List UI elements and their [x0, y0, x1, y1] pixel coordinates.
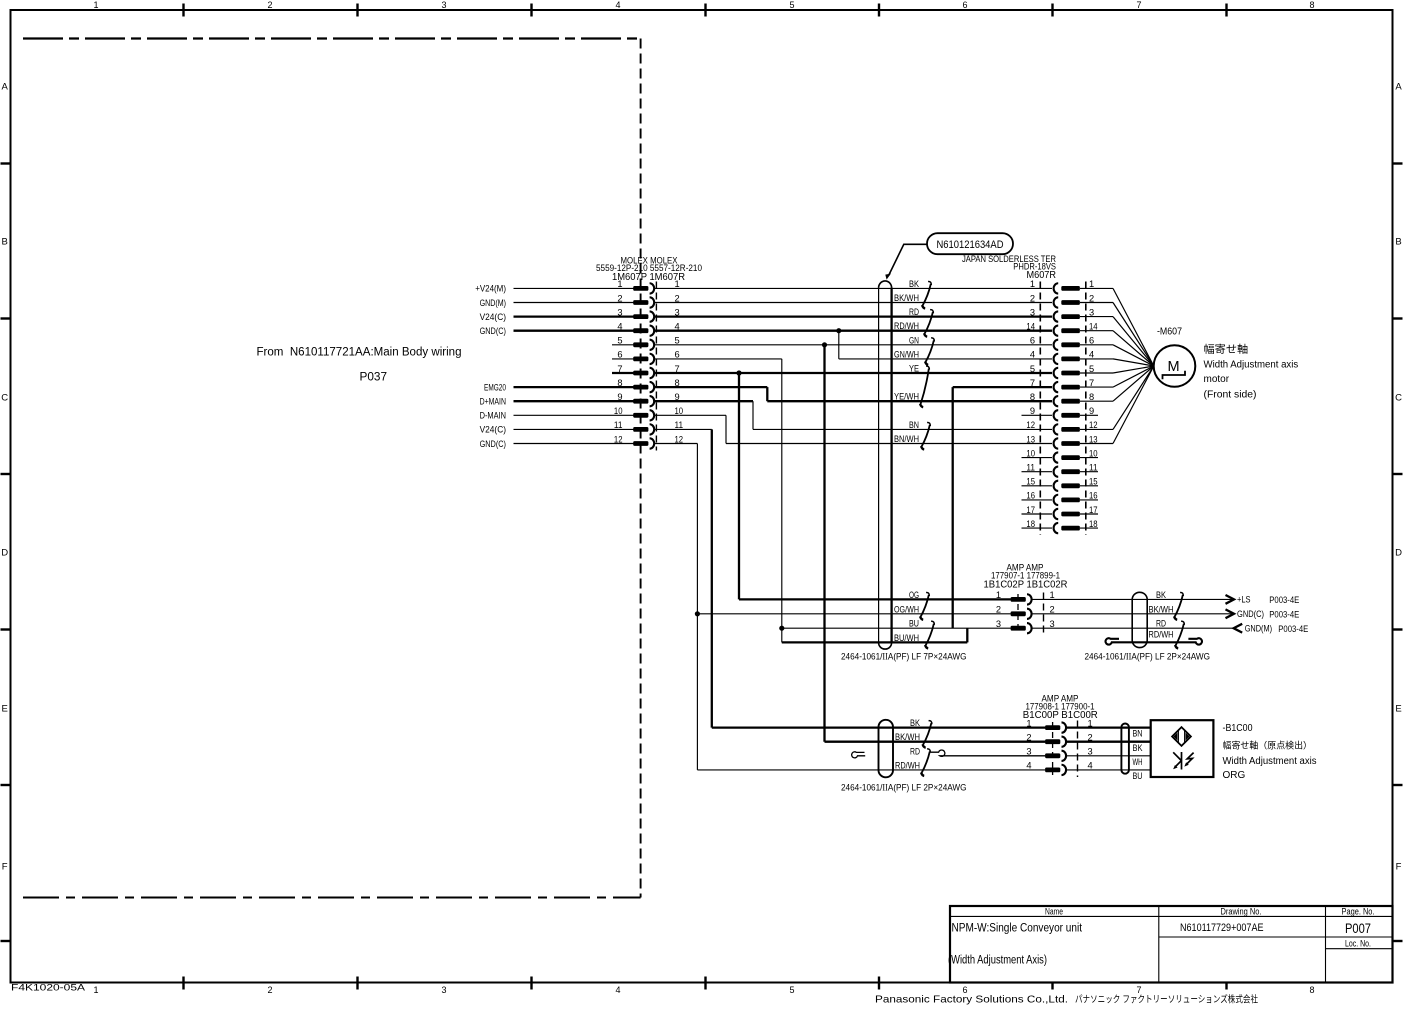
connector M607R position 4 (pin 14): [1061, 328, 1080, 333]
wire BU/WH parallel: [782, 641, 968, 643]
svg-text:RD/WH: RD/WH: [895, 760, 920, 771]
svg-text:1: 1: [675, 279, 680, 289]
svg-text:N610121634AD: N610121634AD: [937, 239, 1004, 251]
connector M607R position 6 (pin 4): [1061, 357, 1080, 362]
connector M607R position 7 (pin 5): [1061, 371, 1080, 376]
svg-text:D-MAIN: D-MAIN: [480, 411, 507, 422]
wire GN 1M607 pin5 to M607R pin6: [654, 344, 1052, 346]
unused stub right: [1080, 513, 1098, 515]
svg-text:6: 6: [962, 0, 967, 10]
svg-text:10: 10: [614, 406, 623, 416]
svg-text:A: A: [1395, 81, 1402, 92]
title block: [950, 906, 1393, 983]
wire YE 1M607 pin7 to M607R pin5: [654, 372, 1052, 374]
svg-text:B: B: [1395, 236, 1401, 247]
svg-text:6: 6: [1030, 336, 1035, 346]
svg-text:D: D: [1395, 547, 1402, 558]
svg-text:P003-4E: P003-4E: [1278, 624, 1308, 635]
stub to motor: [1080, 316, 1113, 318]
wire left of 1M607 pin 6: [612, 358, 634, 360]
wire RD/WH to B1C00 pin4: [697, 769, 1045, 771]
svg-text:BU: BU: [1133, 771, 1143, 782]
connector 1M607 pin 2: [633, 300, 648, 305]
motor lead: [1113, 345, 1154, 366]
svg-text:F: F: [1396, 861, 1402, 872]
plug centre dashed line: [1052, 722, 1054, 775]
stub to motor: [1080, 330, 1113, 332]
unused stub right: [1080, 414, 1098, 416]
svg-text:10: 10: [1026, 448, 1035, 458]
motor lead: [1113, 366, 1154, 387]
stub to motor: [1080, 400, 1113, 402]
svg-text:BU: BU: [909, 619, 919, 630]
svg-text:2: 2: [675, 293, 680, 303]
stub left M607R pin 15: [1022, 485, 1053, 487]
connector 1M607 pin 9: [633, 399, 648, 404]
svg-text:6: 6: [617, 350, 622, 360]
svg-text:ORG: ORG: [1223, 770, 1246, 781]
svg-text:17: 17: [1089, 505, 1098, 515]
svg-text:3: 3: [617, 307, 622, 317]
connector 1B1C02 pin 2: [1011, 611, 1026, 616]
svg-text:4: 4: [615, 0, 620, 10]
svg-text:Width Adjustment axis: Width Adjustment axis: [1223, 756, 1317, 767]
motor lead: [1113, 359, 1154, 366]
twisted-pair mark: [920, 592, 929, 619]
motor lead: [1113, 366, 1154, 401]
svg-text:16: 16: [1026, 491, 1035, 501]
svg-text:9: 9: [1030, 406, 1035, 416]
twisted-pair mark: [1174, 592, 1183, 619]
stub left M607R pin 9: [1022, 414, 1053, 416]
svg-text:3: 3: [1026, 747, 1031, 757]
stub left M607R pin 18: [1022, 527, 1053, 529]
wire left of 1M607 pin 7: [612, 372, 634, 374]
wire left of 1M607 pin 1: [514, 287, 634, 289]
svg-text:14: 14: [1089, 322, 1098, 332]
stub to motor: [1080, 302, 1113, 304]
svg-text:15: 15: [1026, 477, 1035, 487]
stub to motor: [1080, 372, 1113, 374]
svg-text:8: 8: [1309, 985, 1314, 995]
wire EMG20 step down: [766, 387, 768, 401]
svg-text:P003-4E: P003-4E: [1269, 609, 1299, 620]
cable symbol 2P lower-right oval: [1121, 724, 1129, 774]
svg-text:4: 4: [1030, 350, 1035, 360]
svg-text:Width Adjustment axis: Width Adjustment axis: [1204, 359, 1299, 370]
svg-text:Name: Name: [1045, 907, 1063, 917]
unused stub right: [1080, 527, 1098, 529]
svg-text:13: 13: [1026, 434, 1035, 444]
connector 1M607 pin 12: [633, 441, 648, 446]
svg-text:1: 1: [93, 0, 98, 10]
svg-text:NPM-W:Single Conveyor unit: NPM-W:Single Conveyor unit: [952, 923, 1083, 935]
wire BK to B1C00 pin1: [712, 726, 1046, 728]
photo receiver symbol: [1173, 752, 1193, 770]
connector 1M607 pin 1: [633, 286, 648, 291]
wire drop 1M607 pin6 to BU/BU-WH: [781, 359, 783, 643]
svg-text:1: 1: [1089, 279, 1094, 289]
svg-text:GND(M): GND(M): [480, 298, 506, 309]
arrow in GND(M): [1234, 624, 1243, 633]
svg-text:2: 2: [996, 605, 1001, 615]
receptacle-side dashed line 1M607R: [655, 282, 657, 451]
stub to motor: [1080, 386, 1113, 388]
wire GN/WH to M607R pin4: [839, 358, 1052, 360]
svg-text:7: 7: [1089, 378, 1094, 388]
twisted-pair mark: [921, 422, 930, 449]
svg-text:12: 12: [675, 434, 684, 444]
svg-text:N610117729+007AE: N610117729+007AE: [1180, 922, 1264, 934]
wire GND(C) pin12 right of connector: [654, 443, 697, 445]
svg-text:11: 11: [614, 420, 623, 430]
svg-text:M: M: [1167, 359, 1179, 375]
svg-text:E: E: [1395, 703, 1401, 714]
branch GND(C) down: [838, 331, 840, 359]
svg-text:P037: P037: [360, 372, 388, 384]
svg-text:BN: BN: [909, 420, 919, 431]
twisted-pair mark: [923, 721, 932, 748]
twisted-pair mark: [922, 281, 931, 308]
svg-text:From N610117721AA:Main Body w: From N610117721AA:Main Body wiring: [257, 347, 462, 359]
cable symbol 2P lower-left oval: [879, 720, 894, 778]
svg-text:OG/WH: OG/WH: [894, 604, 919, 615]
wire BN/WH to M607R pin13: [726, 443, 1052, 445]
wire B1C00 pin3 to sensor: [1067, 755, 1151, 757]
connector M607R position 13 (pin 10): [1061, 455, 1080, 460]
connector M607R position 3 (pin 3): [1061, 314, 1080, 319]
svg-text:EMG20: EMG20: [484, 382, 506, 393]
cut RD/WH drain wire: [1106, 638, 1202, 644]
unused stub right: [1080, 499, 1098, 501]
svg-text:17: 17: [1026, 505, 1035, 515]
wire OG to 1B1C02 pin1: [739, 598, 1011, 600]
svg-text:7: 7: [1136, 985, 1141, 995]
svg-text:BK: BK: [910, 718, 921, 729]
svg-text:12: 12: [1026, 420, 1035, 430]
svg-text:18: 18: [1089, 519, 1098, 529]
svg-text:GND(C): GND(C): [480, 326, 506, 337]
svg-text:パナソニック ファクトリーソリューションズ株式会社: パナソニック ファクトリーソリューションズ株式会社: [1075, 994, 1258, 1006]
svg-text:3: 3: [1030, 307, 1035, 317]
leader arrow from bubble to cable: [889, 244, 927, 275]
connector 1B1C02 pin 3: [1011, 626, 1026, 631]
svg-text:4: 4: [1026, 761, 1031, 771]
connector M607R position 2 (pin 2): [1061, 300, 1080, 305]
twisted-pair mark: [920, 366, 929, 407]
wire BK to +LS: [1032, 598, 1234, 600]
svg-text:P003-4E: P003-4E: [1269, 595, 1299, 606]
wire D-MAIN step down: [725, 415, 727, 443]
svg-text:F: F: [2, 861, 8, 872]
wire RD to GND(M): [1032, 627, 1234, 629]
motor lead: [1113, 303, 1154, 367]
connector 1M607 pin 10: [633, 413, 648, 418]
svg-text:A: A: [2, 81, 9, 92]
svg-text:RD/WH: RD/WH: [1149, 630, 1174, 641]
svg-text:3: 3: [1050, 619, 1055, 629]
svg-text:BK/WH: BK/WH: [894, 293, 919, 304]
svg-text:7: 7: [617, 364, 622, 374]
arrow out +LS: [1226, 595, 1235, 604]
motor lead: [1113, 366, 1154, 429]
svg-text:3: 3: [996, 619, 1001, 629]
svg-text:5: 5: [617, 336, 622, 346]
svg-text:6: 6: [675, 350, 680, 360]
connector 1M607 pin 5: [633, 342, 648, 347]
wire B1C00 pin4 to sensor: [1067, 769, 1151, 771]
svg-text:9: 9: [1089, 406, 1094, 416]
svg-text:E: E: [2, 703, 8, 714]
svg-text:OG: OG: [909, 590, 919, 601]
photo sensor -B1C00 box: [1151, 720, 1214, 777]
svg-text:5: 5: [1030, 364, 1035, 374]
svg-text:7: 7: [1136, 0, 1141, 10]
connector 1M607 pin 11: [633, 427, 648, 432]
wire 1M607 pin3 to M607R: [654, 315, 1052, 317]
svg-text:GND(C): GND(C): [480, 439, 506, 450]
connector M607R position 15 (pin 15): [1061, 483, 1080, 488]
connector 1B1C02 pin 1: [1011, 597, 1026, 602]
svg-text:15: 15: [1089, 477, 1098, 487]
wire M607R pin7 drop to BU row: [952, 387, 954, 628]
junction on GND(C) wire: [836, 328, 841, 333]
stub left M607R pin 16: [1022, 499, 1053, 501]
svg-text:11: 11: [675, 420, 684, 430]
connector 1M607 pin 4: [633, 328, 648, 333]
connector B1C00 pin 2: [1045, 739, 1060, 744]
svg-text:1B1C02P 1B1C02R: 1B1C02P 1B1C02R: [984, 580, 1068, 591]
svg-text:-B1C00: -B1C00: [1223, 723, 1253, 734]
receptacle dashed line: [1077, 721, 1079, 778]
stub left M607R pin 17: [1022, 513, 1053, 515]
wire left of 1M607 pin 8: [514, 386, 634, 388]
svg-text:Panasonic Factory Solutions Co: Panasonic Factory Solutions Co.,Ltd.: [875, 994, 1068, 1006]
svg-text:2: 2: [267, 985, 272, 995]
svg-text:4: 4: [617, 322, 622, 332]
wire EMG20 right of connector: [654, 386, 767, 388]
svg-text:V24(C): V24(C): [480, 312, 506, 323]
svg-text:3: 3: [441, 0, 446, 10]
svg-text:8: 8: [1030, 392, 1035, 402]
wire V24(C) pin11 right of connector: [654, 428, 712, 430]
junction on pin5 wire: [822, 342, 827, 347]
unused stub right: [1080, 485, 1098, 487]
svg-text:B: B: [2, 236, 8, 247]
twisted-pair mark: [924, 310, 933, 337]
connector M607R position 14 (pin 11): [1061, 469, 1080, 474]
svg-text:2: 2: [617, 293, 622, 303]
wire B1C00 pin2 to sensor: [1067, 741, 1151, 743]
svg-text:12: 12: [1089, 420, 1098, 430]
connector M607R position 17 (pin 17): [1061, 512, 1080, 517]
unused stub right: [1080, 457, 1098, 459]
svg-text:11: 11: [1026, 463, 1035, 473]
connector M607R position 8 (pin 7): [1061, 385, 1080, 390]
dashed boundary: From N610117721AA Main Body wiring P037: [23, 37, 641, 39]
connector 1M607 pin 3: [633, 314, 648, 319]
svg-text:YE: YE: [909, 364, 919, 375]
wire M607R pin7 horizontal: [953, 386, 1052, 388]
svg-text:5: 5: [675, 336, 680, 346]
svg-text:8: 8: [617, 378, 622, 388]
connector 1M607 pin 8: [633, 385, 648, 390]
svg-text:F4K1020-05A: F4K1020-05A: [11, 983, 85, 993]
junction on YE wire: [736, 370, 741, 375]
svg-text:1: 1: [1030, 279, 1035, 289]
svg-text:5: 5: [789, 0, 794, 10]
svg-text:RD: RD: [910, 746, 920, 757]
connector B1C00 pin 1: [1045, 725, 1060, 730]
wire 1M607 pin4 to M607R: [654, 330, 1052, 332]
svg-text:3: 3: [441, 985, 446, 995]
svg-text:幅寄せ軸（原点検出）: 幅寄せ軸（原点検出）: [1223, 740, 1313, 751]
wire D-MAIN right of connector: [654, 414, 726, 416]
svg-text:2464-1061/IIA(PF) LF 2P×24AWG: 2464-1061/IIA(PF) LF 2P×24AWG: [841, 781, 967, 793]
svg-text:+V24(M): +V24(M): [475, 284, 506, 295]
svg-text:4: 4: [615, 985, 620, 995]
svg-text:BK: BK: [909, 279, 920, 290]
svg-text:(Front side): (Front side): [1204, 390, 1257, 401]
connector M607R position 11 (pin 12): [1061, 427, 1080, 432]
wire YE/WH to M607R pin8: [767, 400, 1052, 402]
svg-text:1: 1: [93, 985, 98, 995]
svg-text:4: 4: [1088, 761, 1093, 771]
wire left of 1M607 pin 12: [514, 443, 634, 445]
svg-text:5: 5: [1089, 364, 1094, 374]
svg-text:BK/WH: BK/WH: [1149, 604, 1174, 615]
motor bracket mark: [1163, 371, 1186, 379]
wire left of 1M607 pin 2: [514, 302, 634, 304]
wire drop pin12 to RD/WH rows: [696, 444, 698, 770]
motor lead: [1113, 331, 1154, 366]
twisted-pair mark: [925, 621, 934, 648]
motor lead: [1113, 288, 1154, 366]
svg-text:10: 10: [675, 406, 684, 416]
svg-text:RD/WH: RD/WH: [894, 321, 919, 332]
wire drop pin7 to OG row: [738, 373, 740, 599]
svg-text:C: C: [1395, 392, 1402, 403]
wire drop pin5 to B1C00 BK/WH: [823, 345, 825, 742]
wire left of 1M607 pin 3: [514, 315, 634, 317]
svg-text:BK/WH: BK/WH: [895, 732, 920, 743]
twisted-pair mark: [921, 749, 930, 776]
svg-text:BK: BK: [1156, 590, 1167, 601]
wire left of 1M607 pin 11: [514, 428, 634, 430]
wire BK/WH to B1C00 pin2: [825, 741, 1046, 743]
motor lead: [1113, 366, 1154, 444]
svg-text:8: 8: [1309, 0, 1314, 10]
svg-text:2: 2: [267, 0, 272, 10]
stub left M607R pin 11: [1022, 471, 1053, 473]
wire BU/WH step up: [966, 628, 968, 642]
junction pin12 drop / OG-WH: [695, 611, 700, 616]
svg-text:6: 6: [1089, 336, 1094, 346]
svg-text:幅寄せ軸: 幅寄せ軸: [1204, 343, 1249, 356]
stub to motor: [1080, 443, 1113, 445]
svg-text:1: 1: [1050, 590, 1055, 600]
svg-text:18: 18: [1026, 519, 1035, 529]
svg-text:8: 8: [1089, 392, 1094, 402]
svg-text:GN: GN: [909, 335, 919, 346]
connector M607R position 16 (pin 16): [1061, 498, 1080, 503]
cable symbol 2P right: [1132, 592, 1147, 647]
connector 1M607 pin 6: [633, 357, 648, 362]
svg-text:+LS: +LS: [1237, 595, 1251, 606]
svg-text:Loc. No.: Loc. No.: [1345, 939, 1371, 949]
wire left of 1M607 pin 4: [514, 330, 634, 332]
wire BU to 1B1C02 pin3: [782, 627, 1011, 629]
wire 1M607 pin6 horizontal: [654, 358, 782, 360]
connector M607R position 1 (pin 1): [1061, 286, 1080, 291]
svg-text:RD: RD: [1156, 619, 1166, 630]
svg-text:GN/WH: GN/WH: [894, 349, 919, 360]
wire D+MAIN step down: [752, 401, 754, 429]
connector M607R position 5 (pin 6): [1061, 342, 1080, 347]
connector M607R position 18 (pin 18): [1061, 526, 1080, 531]
svg-text:11: 11: [1089, 463, 1098, 473]
wire left of 1M607 pin 5: [612, 344, 634, 346]
stub to motor: [1080, 287, 1113, 289]
svg-text:9: 9: [617, 392, 622, 402]
svg-text:3: 3: [1088, 747, 1093, 757]
svg-text:1: 1: [617, 279, 622, 289]
svg-text:(Width Adjustment Axis): (Width Adjustment Axis): [948, 955, 1047, 967]
svg-text:GND(M): GND(M): [1245, 623, 1272, 634]
stub left M607R pin 10: [1022, 457, 1053, 459]
svg-text:12: 12: [614, 434, 623, 444]
motor lead: [1113, 366, 1154, 373]
arrow out GND(C): [1226, 609, 1235, 618]
svg-text:10: 10: [1089, 448, 1098, 458]
wire 1M607 pin1 to M607R: [654, 287, 1052, 289]
svg-text:2: 2: [1030, 293, 1035, 303]
svg-text:RD: RD: [909, 307, 919, 318]
part number bubble N610121634AD: [927, 233, 1013, 254]
cut RD wire left piece: [852, 752, 866, 758]
connector M607R position 10 (pin 9): [1061, 413, 1080, 418]
svg-text:motor: motor: [1204, 374, 1230, 385]
wire B1C00 pin1 to sensor: [1067, 726, 1151, 728]
svg-text:GND(C): GND(C): [1237, 609, 1264, 620]
svg-text:2464-1061/IIA(PF) LF 7P×24AWG: 2464-1061/IIA(PF) LF 7P×24AWG: [841, 650, 967, 662]
svg-text:BN: BN: [1133, 729, 1143, 740]
svg-text:7: 7: [1030, 378, 1035, 388]
svg-text:14: 14: [1026, 322, 1035, 332]
junction BU / pin6-drop: [779, 626, 784, 631]
wire D+MAIN right of connector: [654, 400, 753, 402]
twisted-pair mark: [925, 338, 934, 365]
connector M607R position 9 (pin 8): [1061, 399, 1080, 404]
svg-text:13: 13: [1089, 434, 1098, 444]
wire BK/WH to GND(C): [1032, 613, 1234, 615]
svg-text:V24(C): V24(C): [480, 425, 506, 436]
svg-text:D+MAIN: D+MAIN: [480, 397, 506, 408]
unused stub right: [1080, 471, 1098, 473]
svg-text:BU/WH: BU/WH: [894, 633, 919, 644]
svg-text:4: 4: [1089, 350, 1094, 360]
svg-text:2464-1061/IIA(PF) LF 2P×24AWG: 2464-1061/IIA(PF) LF 2P×24AWG: [1085, 650, 1211, 662]
connector B1C00 pin 3: [1045, 753, 1060, 758]
photo interrupter emitter symbol: [1172, 727, 1191, 746]
svg-text:3: 3: [1089, 307, 1094, 317]
svg-text:BN/WH: BN/WH: [894, 434, 919, 445]
cut RD wire right piece: [930, 750, 1045, 756]
svg-text:2: 2: [1050, 605, 1055, 615]
svg-text:-M607: -M607: [1157, 327, 1182, 338]
svg-text:5: 5: [789, 985, 794, 995]
connector M607R position 12 (pin 13): [1061, 441, 1080, 446]
